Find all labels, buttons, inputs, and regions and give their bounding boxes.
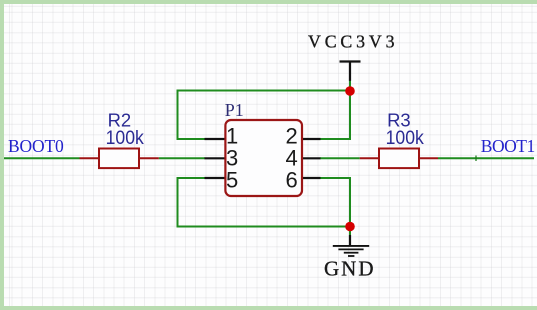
svg-text:BOOT1: BOOT1 <box>481 136 535 156</box>
svg-text:BOOT0: BOOT0 <box>8 136 64 156</box>
svg-text:100k: 100k <box>106 128 145 149</box>
svg-text:P1: P1 <box>225 100 244 120</box>
svg-text:6: 6 <box>286 168 298 193</box>
svg-text:GND: GND <box>324 256 374 280</box>
svg-text:5: 5 <box>226 168 238 193</box>
svg-text:100k: 100k <box>386 128 425 149</box>
svg-text:VCC3V3: VCC3V3 <box>308 32 395 52</box>
